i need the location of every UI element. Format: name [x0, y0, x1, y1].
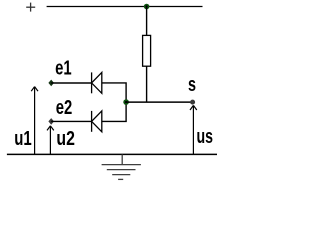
- wire output node to s terminal: [126, 101, 193, 103]
- svg-text:u1: u1: [14, 128, 32, 150]
- node output junction dot: [123, 99, 129, 105]
- node s output terminal dot: [190, 100, 195, 105]
- wire e2 diode to connector: [102, 102, 126, 121]
- diode D2 (input e2): [92, 111, 102, 132]
- svg-text:e1: e1: [55, 58, 72, 80]
- wire e1 input wire: [51, 82, 91, 84]
- node e1 input terminal dot: [48, 80, 54, 87]
- svg-text:s: s: [188, 74, 196, 96]
- wire resistor top lead: [146, 7, 148, 36]
- u2 voltage arrow: [47, 126, 54, 155]
- u1 voltage arrow: [31, 87, 38, 155]
- wire bottom ground rail: [7, 153, 217, 155]
- wire e1 diode to connector: [102, 83, 126, 102]
- node e2 input terminal dot: [48, 118, 54, 125]
- wire e2 input wire: [51, 120, 91, 122]
- svg-text:e2: e2: [56, 97, 73, 119]
- wire resistor bottom lead: [146, 66, 148, 102]
- node top junction dot: [144, 4, 150, 10]
- ground: [102, 154, 141, 179]
- us voltage arrow: [190, 105, 197, 154]
- svg-text:u2: u2: [56, 128, 75, 150]
- diode D1 (input e1): [92, 72, 102, 93]
- wire top supply rail: [47, 6, 203, 8]
- svg-text:us: us: [197, 126, 214, 148]
- plus supply symbol: [26, 3, 35, 12]
- resistor R: [143, 35, 151, 66]
